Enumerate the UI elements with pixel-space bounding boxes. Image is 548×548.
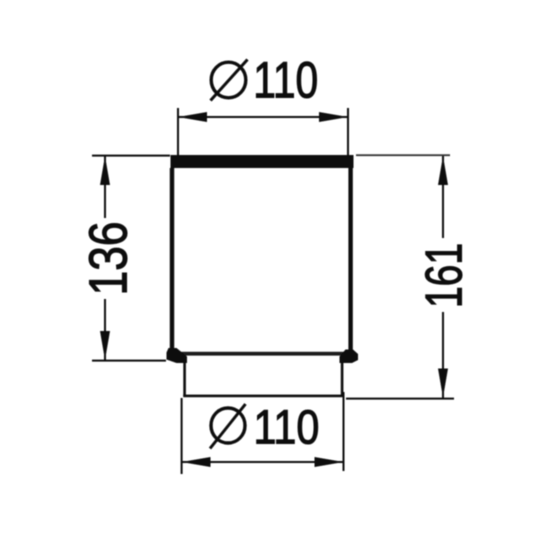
lower section bottom line xyxy=(183,395,343,398)
left dimension line lower segment xyxy=(104,299,106,360)
top dimension right arrow xyxy=(319,112,348,122)
left wall xyxy=(170,168,174,352)
lower section right wall xyxy=(341,358,344,397)
left dimension line upper segment xyxy=(104,156,106,218)
top dimension line xyxy=(178,116,348,118)
top dimension extension line left xyxy=(177,108,179,155)
bottom dimension extension line right xyxy=(343,392,345,471)
right dimension bottom arrow xyxy=(438,369,448,398)
left dimension top extension line xyxy=(92,155,170,157)
bottom diameter symbol xyxy=(210,404,246,449)
svg-text:110: 110 xyxy=(253,51,318,108)
left dimension bottom arrow xyxy=(100,331,110,360)
bottom dimension line xyxy=(182,461,344,463)
right dimension line lower segment xyxy=(442,312,444,398)
svg-text:136: 136 xyxy=(78,222,138,296)
svg-text:110: 110 xyxy=(254,401,320,455)
left lip foot xyxy=(167,348,188,363)
svg-text:161: 161 xyxy=(414,243,473,308)
right lip foot xyxy=(340,350,359,364)
top rim band xyxy=(171,155,354,168)
right wall xyxy=(348,168,352,353)
left dimension bottom extension line xyxy=(92,360,166,362)
top dimension extension line right xyxy=(347,108,349,155)
right dimension bottom extension line xyxy=(346,398,454,400)
lip line xyxy=(174,352,346,356)
right dimension top extension line xyxy=(356,154,450,156)
bottom dimension left arrow xyxy=(182,457,211,467)
right dimension line upper segment xyxy=(442,156,444,238)
bottom dimension right arrow xyxy=(315,457,344,467)
bottom dimension extension line left xyxy=(181,398,183,474)
right dimension top arrow xyxy=(438,156,448,185)
left dimension top arrow xyxy=(100,156,110,185)
top diameter symbol xyxy=(211,60,248,101)
lower section left wall xyxy=(183,358,186,397)
top dimension left arrow xyxy=(178,112,207,122)
